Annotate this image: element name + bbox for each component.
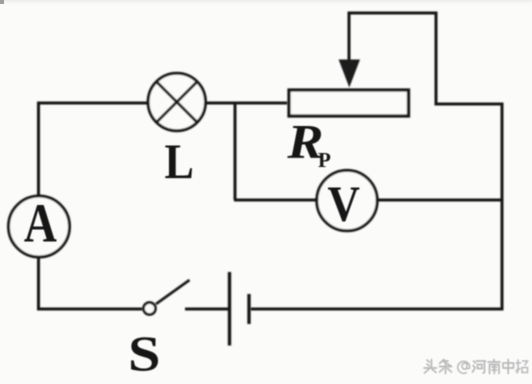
svg-text:A: A bbox=[24, 193, 57, 254]
svg-text:L: L bbox=[165, 134, 194, 189]
svg-text:V: V bbox=[327, 176, 360, 232]
svg-text:P: P bbox=[318, 148, 331, 172]
svg-text:S: S bbox=[128, 326, 161, 381]
